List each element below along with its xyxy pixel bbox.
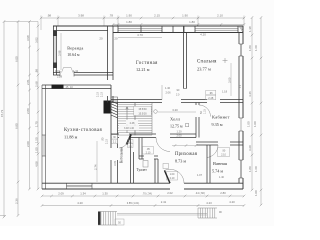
svg-text:2.00: 2.00: [177, 133, 183, 137]
wall kitchen left inner: [45, 85, 47, 189]
stair divider: [134, 103, 136, 135]
wall bottom inner left: [42, 182, 170, 184]
extension stub x244: [243, 16, 245, 27]
door arc entrance: [164, 169, 184, 183]
svg-text:3.98: 3.98: [58, 50, 62, 56]
wall pier edge x=173: [172, 26, 174, 33]
svg-text:.70 (.34): .70 (.34): [142, 192, 152, 196]
stairs door leaf: [127, 135, 132, 145]
svg-text:1.42: 1.42: [73, 69, 79, 73]
stair dim box 3.48: [119, 125, 139, 130]
svg-text:15.5/30: 15.5/30: [138, 112, 147, 115]
svg-text:2.80: 2.80: [220, 191, 226, 195]
svg-text:2.10: 2.10: [101, 92, 104, 97]
svg-text:12.75 м: 12.75 м: [170, 124, 183, 129]
door jamb leader living: [161, 85, 163, 100]
dim line right colA: [251, 18, 253, 191]
svg-text:Веранда: Веранда: [67, 46, 83, 51]
wall toilet top outer left: [139, 155, 144, 157]
svg-text:1.30: 1.30: [102, 192, 108, 196]
entrance door leaf: [165, 171, 171, 184]
dim line top row1: [41, 17, 244, 19]
svg-text:2.10: 2.10: [170, 177, 175, 180]
wall right outer seg3: [242, 131, 244, 160]
wall office bottom outer left: [196, 141, 218, 143]
door tag box c1: [128, 140, 134, 144]
svg-text:1.60: 1.60: [254, 166, 258, 172]
wall bath left outer: [206, 145, 208, 183]
wall hall-office outer upper: [195, 103, 197, 106]
door tag box c2: [128, 144, 134, 148]
window kitchen left glass2: [43, 135, 45, 156]
svg-text:12.21 м: 12.21 м: [136, 67, 150, 72]
wall bottom inner right: [184, 182, 243, 184]
wall kitchen top outer: [42, 84, 111, 86]
stair label box: [134, 106, 152, 115]
dim line living interior: [118, 37, 162, 39]
window bath right jamb bottom: [239, 177, 243, 179]
svg-text:1.70: 1.70: [35, 121, 39, 127]
svg-text:2.10: 2.10: [221, 153, 226, 156]
window kitchen bottom jamb left: [66, 183, 68, 189]
svg-text:1.60: 1.60: [254, 45, 258, 51]
svg-text:4.20: 4.20: [77, 201, 83, 205]
wall right inner seg3: [238, 131, 240, 160]
wc fixture: [143, 161, 148, 168]
terrace edge line2: [117, 214, 207, 216]
svg-text:5.74 м: 5.74 м: [212, 168, 223, 173]
svg-text:1.00: 1.00: [253, 121, 257, 127]
wall toilet top inner left: [139, 158, 144, 160]
boiler door tag box b: [112, 139, 118, 143]
svg-text:Туалет: Туалет: [137, 168, 148, 172]
svg-text:1.07: 1.07: [197, 173, 203, 177]
dim line left col2: [17, 22, 19, 216]
wall living-bedroom outer upper: [183, 26, 185, 89]
extension stub x198: [197, 16, 199, 27]
wall veranda left outer: [53, 26, 55, 75]
svg-text:4.70: 4.70: [137, 33, 143, 37]
wall right outer seg2: [242, 56, 244, 118]
wall right inner seg1: [238, 33, 240, 45]
wall right inner seg4: [238, 178, 240, 183]
window veranda left glass: [54, 36, 56, 63]
window kitchen left jamb bottom: [42, 155, 46, 157]
svg-text:3.98: 3.98: [78, 14, 84, 18]
svg-text:1.18: 1.18: [222, 90, 228, 94]
wall pier edge x=113: [112, 26, 114, 33]
wall boiler right outer: [130, 138, 132, 184]
svg-text:2.10: 2.10: [146, 151, 151, 154]
svg-text:3.20: 3.20: [248, 145, 252, 151]
wall toilet top inner right: [154, 158, 158, 160]
wall pier edge x=238: [237, 26, 239, 33]
dim line left col1: [3, 22, 5, 218]
chimney block: [104, 101, 111, 114]
wall veranda top inner: [53, 30, 108, 32]
svg-text:2.10: 2.10: [106, 139, 109, 144]
door label box entrance: [167, 172, 178, 181]
door arc office: [199, 105, 211, 117]
wall hall top outer mid: [181, 99, 207, 101]
svg-text:Котельная: Котельная: [120, 147, 124, 163]
extension stub x41: [40, 16, 42, 31]
svg-text:3.85 (1.01): 3.85 (1.01): [127, 201, 140, 205]
wall office bottom inner left: [196, 144, 218, 146]
svg-text:2.09: 2.09: [58, 192, 64, 196]
wall pier edge x=195: [194, 26, 196, 33]
wall stairs left inner lower: [117, 160, 119, 183]
svg-text:1.80: 1.80: [248, 45, 252, 51]
svg-text:2.68: 2.68: [35, 81, 39, 87]
svg-text:Прихожая: Прихожая: [175, 152, 198, 157]
wall hall bottom inner b: [129, 137, 156, 139]
wall veranda bottom outer left: [53, 72, 60, 74]
svg-text:15.5/30: 15.5/30: [138, 108, 147, 111]
stair arrow: [126, 107, 128, 133]
svg-text:Спальня: Спальня: [197, 60, 217, 65]
dim line right colB: [260, 18, 262, 206]
wall right inner seg2: [238, 56, 240, 118]
wall toilet left outer: [138, 138, 140, 160]
dim line left col3: [29, 22, 31, 190]
wall veranda right outer lower: [107, 96, 109, 103]
wall toilet top outer right: [154, 155, 158, 157]
dim line bottom row2: [42, 205, 244, 207]
door arc stairs: [119, 138, 129, 149]
door label box bath: [218, 148, 230, 157]
svg-text:Кабинет: Кабинет: [212, 115, 230, 120]
flue hatch in wall: [111, 101, 118, 104]
wall veranda bottom inner left: [53, 74, 60, 76]
svg-text:1.01: 1.01: [55, 69, 61, 73]
svg-text:4.20: 4.20: [200, 33, 206, 37]
door tag box bedroom a: [206, 90, 216, 95]
extension stub x118: [117, 16, 119, 27]
svg-text:2.06: 2.06: [166, 91, 172, 95]
svg-text:2.41: 2.41: [161, 200, 167, 204]
window bath right jamb top: [239, 159, 243, 161]
svg-text:3.00: 3.00: [228, 77, 232, 83]
center cross bedroom v: [224, 58, 226, 63]
extension stub x58: [57, 16, 59, 27]
veranda door jamb right: [73, 71, 75, 77]
svg-text:1.80: 1.80: [189, 20, 195, 24]
terrace edge line1: [117, 213, 207, 215]
svg-text:4.46: 4.46: [248, 91, 252, 97]
wall office bottom inner right: [230, 144, 243, 146]
svg-text:Гостиная: Гостиная: [136, 61, 158, 66]
svg-text:1.00: 1.00: [170, 173, 175, 176]
wall bottom outer left: [42, 188, 170, 190]
svg-text:8.73 м: 8.73 м: [175, 159, 186, 164]
wall hall-office inner upper: [198, 103, 200, 106]
svg-text:1.90: 1.90: [182, 14, 188, 18]
svg-text:2.28: 2.28: [57, 75, 63, 79]
window bath right glass2: [241, 160, 243, 178]
extension line left cols top: [4, 21, 38, 23]
svg-text:20: 20: [99, 37, 103, 41]
wall pier edge x=141: [140, 26, 142, 33]
wall veranda right inner upper: [112, 33, 114, 81]
wall veranda bottom outer right: [74, 72, 113, 74]
wall hall bottom outer a: [111, 133, 119, 135]
svg-text:.88: .88: [35, 69, 39, 73]
svg-text:23.77 м: 23.77 м: [197, 67, 211, 72]
svg-text:3.02: 3.02: [35, 37, 39, 43]
veranda door symbol: [62, 68, 74, 73]
svg-text:2.36: 2.36: [15, 198, 19, 204]
wall hall bottom outer b: [129, 133, 156, 135]
svg-text:1.80: 1.80: [248, 166, 252, 172]
svg-text:1.40: 1.40: [165, 86, 171, 90]
wall bottom outer right: [184, 188, 243, 190]
door tag box bedroom b: [206, 95, 216, 100]
svg-text:10.64 м: 10.64 м: [67, 53, 80, 57]
svg-text:1.40: 1.40: [219, 176, 224, 179]
wall hall top outer left: [111, 99, 162, 101]
svg-text:2.10: 2.10: [217, 14, 223, 18]
wall kitchen left outer: [41, 85, 43, 189]
dim line top row2: [113, 24, 244, 26]
svg-text:3.20: 3.20: [172, 108, 178, 112]
dim line hall interior: [158, 111, 196, 113]
svg-text:2.48: 2.48: [130, 122, 135, 125]
wall toilet left inner: [141, 138, 143, 160]
wall hall bottom inner c: [170, 137, 196, 139]
porch right steps: [197, 208, 199, 218]
wall hall-office outer lower: [195, 117, 197, 138]
wall main top inner: [113, 32, 243, 34]
wall hall top inner mid: [181, 102, 207, 104]
window kitchen bottom glass1: [67, 184, 93, 186]
flue box: [111, 97, 118, 101]
wall bath left inner: [209, 145, 211, 183]
wall pier edge x=184: [183, 26, 185, 33]
svg-text:1.38: 1.38: [248, 26, 252, 32]
label box under porch: [115, 219, 124, 225]
wall veranda left inner: [56, 26, 58, 75]
svg-text:2.10: 2.10: [97, 92, 100, 97]
svg-text:2.80: 2.80: [26, 108, 30, 114]
svg-text:.44 (.60): .44 (.60): [195, 191, 205, 195]
corner hatch bedroom top-right: [239, 26, 243, 32]
svg-text:.90: .90: [222, 149, 226, 152]
wall toilet right inner: [157, 159, 159, 183]
door office right leafline: [240, 118, 242, 131]
dim line veranda interior: [60, 33, 62, 70]
pier kitchen top black: [52, 85, 64, 89]
svg-text:3.98: 3.98: [26, 35, 30, 41]
svg-text:.96: .96: [209, 91, 213, 95]
wall bedroom bottom inner right: [220, 102, 243, 104]
window living room top line2: [118, 29, 162, 31]
bedroom interior dim line: [230, 63, 232, 96]
svg-text:1.20: 1.20: [177, 130, 183, 134]
window bedroom right glass2: [241, 44, 243, 56]
staircase steps: [118, 104, 152, 106]
wall living-bedroom inner upper: [186, 33, 188, 89]
svg-text:2.48: 2.48: [208, 96, 214, 100]
wall pier edge x=118: [117, 26, 119, 33]
hall area icon: [186, 124, 189, 127]
svg-text:1.00: 1.00: [247, 121, 251, 127]
svg-text:1.00: 1.00: [254, 190, 258, 196]
wall kitchen top inner: [42, 88, 111, 90]
window kitchen left jamb top: [42, 134, 46, 136]
veranda door jamb left: [59, 71, 61, 77]
window bedroom right jamb bottom: [239, 55, 243, 57]
extension stub x104: [103, 16, 105, 27]
boiler door tag box a: [112, 135, 118, 139]
wall pier edge x=162: [161, 26, 163, 33]
wall veranda right outer upper: [107, 26, 109, 80]
svg-text:2.81: 2.81: [26, 79, 30, 85]
svg-text:2.00: 2.00: [26, 141, 30, 147]
pier veranda left lower: [53, 63, 57, 69]
svg-text:3.81: 3.81: [113, 160, 117, 166]
door label box toilet: [143, 147, 154, 155]
wall veranda bottom inner right: [74, 74, 113, 76]
svg-text:1.00: 1.00: [35, 147, 39, 153]
window bedroom right glass1: [239, 44, 241, 56]
wall hall-office inner lower: [198, 117, 200, 138]
svg-text:.78: .78: [109, 14, 113, 18]
stair dim box 2.48: [126, 120, 138, 125]
svg-text:4.20: 4.20: [229, 200, 235, 204]
door arc hall-entry: [156, 138, 170, 152]
wall right outer seg1: [242, 26, 244, 44]
wall hall bottom outer c: [170, 133, 196, 135]
stair right edge: [151, 103, 153, 135]
pier veranda left upper: [53, 31, 57, 37]
svg-text:6.00: 6.00: [15, 56, 19, 62]
svg-text:4.23: 4.23: [206, 201, 212, 205]
section circle mark: [154, 110, 158, 114]
wall hall top inner left: [111, 102, 162, 104]
svg-text:3.48 1.40: 3.48 1.40: [124, 127, 135, 130]
wall stairs left inner upper: [117, 102, 119, 149]
svg-text:20: 20: [114, 37, 118, 41]
wall office bottom outer right: [230, 141, 243, 143]
center cross bedroom h: [223, 60, 228, 62]
porch left steps: [98, 212, 101, 226]
svg-text:Кухня-столовая: Кухня-столовая: [64, 128, 102, 133]
door arc bath: [207, 145, 218, 158]
svg-text:1.34: 1.34: [80, 192, 86, 196]
svg-text:6.80: 6.80: [15, 123, 19, 129]
svg-text:Холл: Холл: [170, 117, 181, 122]
svg-text:11.88 м: 11.88 м: [64, 135, 78, 140]
svg-text:1.90: 1.90: [126, 14, 132, 18]
wall veranda right inner lower: [112, 96, 114, 103]
window kitchen left glass1: [42, 135, 44, 156]
door office right jamb top: [239, 117, 243, 119]
wall stairs left outer lower: [110, 160, 112, 183]
svg-text:2.02: 2.02: [167, 191, 173, 195]
svg-text:15.73: 15.73: [0, 109, 4, 117]
dim line kitchen interior: [96, 141, 98, 182]
svg-text:2.74: 2.74: [94, 164, 98, 170]
window kitchen bottom glass2: [67, 186, 93, 188]
window bath right glass1: [239, 160, 241, 178]
dim line entry interior: [172, 145, 196, 147]
wall stairs left outer upper: [110, 85, 112, 148]
svg-text:1.50: 1.50: [35, 137, 39, 143]
window kitchen bottom jamb right: [91, 183, 93, 189]
wall boiler right inner: [133, 152, 135, 183]
wall toilet right outer: [154, 159, 156, 183]
wall right outer seg4: [242, 178, 244, 189]
wall hall bottom inner a: [111, 137, 119, 139]
svg-text:1.15: 1.15: [204, 109, 207, 114]
window bedroom top line2: [195, 29, 238, 31]
dim line left col4: [37, 22, 39, 190]
svg-text:Ванная: Ванная: [213, 161, 227, 166]
dim dash bottom-left: [0, 215, 6, 217]
wall bedroom bottom outer right: [220, 99, 243, 101]
door office right jamb bottom: [239, 130, 243, 132]
svg-text:.98: .98: [47, 14, 51, 18]
svg-text:4.08: 4.08: [35, 161, 39, 167]
window bedroom top line1: [195, 28, 238, 30]
wall living-bedroom jamb: [184, 88, 187, 90]
dim line bottom row1: [42, 195, 244, 197]
svg-text:1.80: 1.80: [126, 20, 132, 24]
entry fixture: [163, 164, 169, 169]
wall top outer edge: [53, 25, 243, 27]
window bedroom right jamb top: [239, 43, 243, 45]
svg-text:9.35 м: 9.35 м: [212, 122, 223, 127]
window living room top line1: [118, 28, 162, 30]
svg-text:2.15: 2.15: [154, 14, 160, 18]
